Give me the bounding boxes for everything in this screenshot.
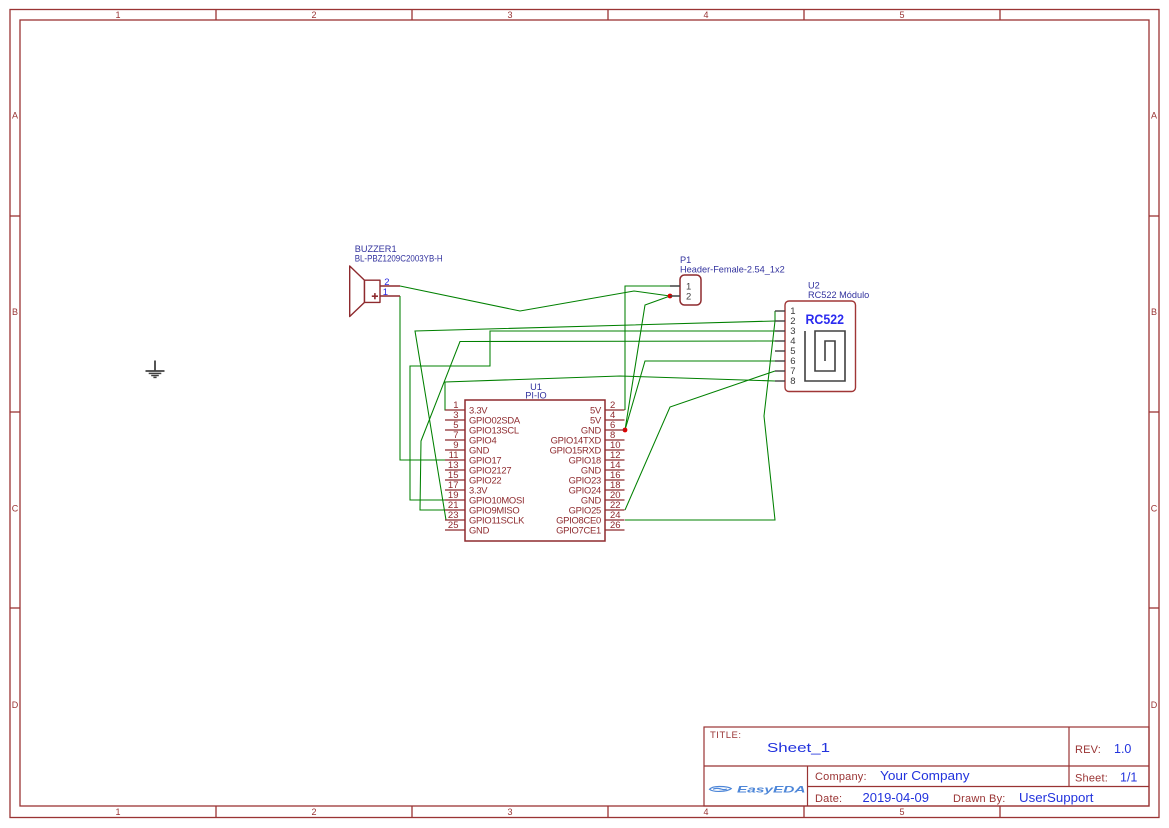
- svg-text:1: 1: [115, 807, 120, 817]
- svg-text:4: 4: [703, 807, 708, 817]
- svg-text:3: 3: [507, 10, 512, 20]
- svg-text:Header-Female-2.54_1x2: Header-Female-2.54_1x2: [680, 264, 785, 274]
- junction U1 pin6: [623, 428, 628, 433]
- wire P1 pin1 to U1 pin2 5V: [625, 286, 670, 410]
- svg-text:P1: P1: [680, 255, 691, 265]
- wire U2 pin1 SDA link: [774, 311, 776, 321]
- svg-text:BUZZER1: BUZZER1: [355, 244, 397, 254]
- svg-text:5: 5: [899, 807, 904, 817]
- antenna coil: [805, 331, 845, 381]
- svg-text:EasyEDA: EasyEDA: [737, 785, 806, 795]
- module U2 RC522: [775, 281, 869, 392]
- wire U1 pin6 to U2 pin6 GND: [625, 361, 775, 430]
- svg-text:2: 2: [686, 292, 691, 303]
- svg-text:C: C: [12, 504, 19, 514]
- svg-text:D: D: [12, 700, 19, 710]
- svg-text:GPIO7CE1: GPIO7CE1: [556, 525, 601, 536]
- svg-text:26: 26: [610, 520, 621, 531]
- svg-text:1: 1: [115, 10, 120, 20]
- svg-text:B: B: [1151, 307, 1157, 317]
- svg-text:UserSupport: UserSupport: [1019, 791, 1094, 805]
- wire U1 pin1 3.3V to U2 pin8: [445, 376, 775, 410]
- chip U1 PI-IO: [445, 382, 625, 541]
- svg-text:B: B: [12, 307, 18, 317]
- wire P1 pin2 to U1 pin6 GND: [625, 296, 670, 430]
- svg-text:Your Company: Your Company: [880, 769, 970, 783]
- svg-text:C: C: [1151, 504, 1158, 514]
- wire U2 pin2 SCK to U1 pin23 GPIO11SCLK: [415, 321, 775, 520]
- svg-text:1/1: 1/1: [1120, 771, 1137, 785]
- svg-text:8: 8: [790, 376, 795, 387]
- svg-text:25: 25: [448, 520, 459, 531]
- P1 pin 1: [670, 285, 680, 287]
- svg-text:2: 2: [311, 807, 316, 817]
- U2 pin stubs 1-8: [775, 311, 785, 381]
- svg-text:Sheet_1: Sheet_1: [767, 740, 830, 755]
- svg-text:4: 4: [703, 10, 708, 20]
- svg-text:Sheet:: Sheet:: [1075, 773, 1108, 785]
- svg-text:GND: GND: [469, 525, 490, 536]
- wire U1 pin21 GPIO9MISO to U2 pin4 MISO: [420, 341, 775, 510]
- U1 pin numbers: [448, 400, 621, 531]
- wire U1 pin19 GPIO10MOSI to U2 pin3 MOSI: [410, 331, 775, 500]
- junction P1 pin2: [668, 294, 673, 299]
- buzzer BUZZER1: [350, 244, 443, 317]
- svg-text:A: A: [1151, 111, 1157, 121]
- svg-text:D: D: [1151, 700, 1158, 710]
- title block: [704, 727, 1149, 806]
- svg-text:Date:: Date:: [815, 793, 842, 805]
- svg-text:REV:: REV:: [1075, 744, 1101, 756]
- wire U1 pin22 GPIO25 to U2 pin7 RST: [625, 371, 775, 510]
- header P1: [670, 255, 785, 305]
- wire buzzer pin1 to U1 pin11 GPIO17: [400, 296, 446, 460]
- svg-text:1.0: 1.0: [1114, 742, 1131, 756]
- svg-text:RC522: RC522: [806, 312, 845, 327]
- svg-text:RC522 Módulo: RC522 Módulo: [808, 290, 869, 300]
- svg-text:U2: U2: [808, 281, 820, 291]
- P1 pin 2: [670, 295, 680, 297]
- svg-text:3: 3: [507, 807, 512, 817]
- U1 pin stubs: [445, 410, 625, 530]
- wire buzzer pin2 to P1 pin2: [400, 286, 670, 311]
- svg-text:A: A: [12, 111, 18, 121]
- svg-text:BL-PBZ1209C2003YB-H: BL-PBZ1209C2003YB-H: [355, 254, 443, 264]
- svg-text:1: 1: [383, 287, 388, 298]
- U1 pin names: [469, 405, 602, 536]
- svg-text:PI-IO: PI-IO: [525, 391, 546, 401]
- U2 pin numbers: [790, 306, 795, 387]
- svg-text:Company:: Company:: [815, 771, 867, 783]
- EasyEDA logo: [710, 785, 806, 795]
- svg-text:2: 2: [311, 10, 316, 20]
- svg-text:TITLE:: TITLE:: [710, 730, 742, 741]
- svg-text:2019-04-09: 2019-04-09: [863, 791, 930, 805]
- svg-text:5: 5: [899, 10, 904, 20]
- svg-text:Drawn By:: Drawn By:: [953, 793, 1006, 805]
- wire U2 pin1 to U1 pin24 GPIO8CE0: [625, 321, 775, 520]
- ground: [146, 361, 165, 378]
